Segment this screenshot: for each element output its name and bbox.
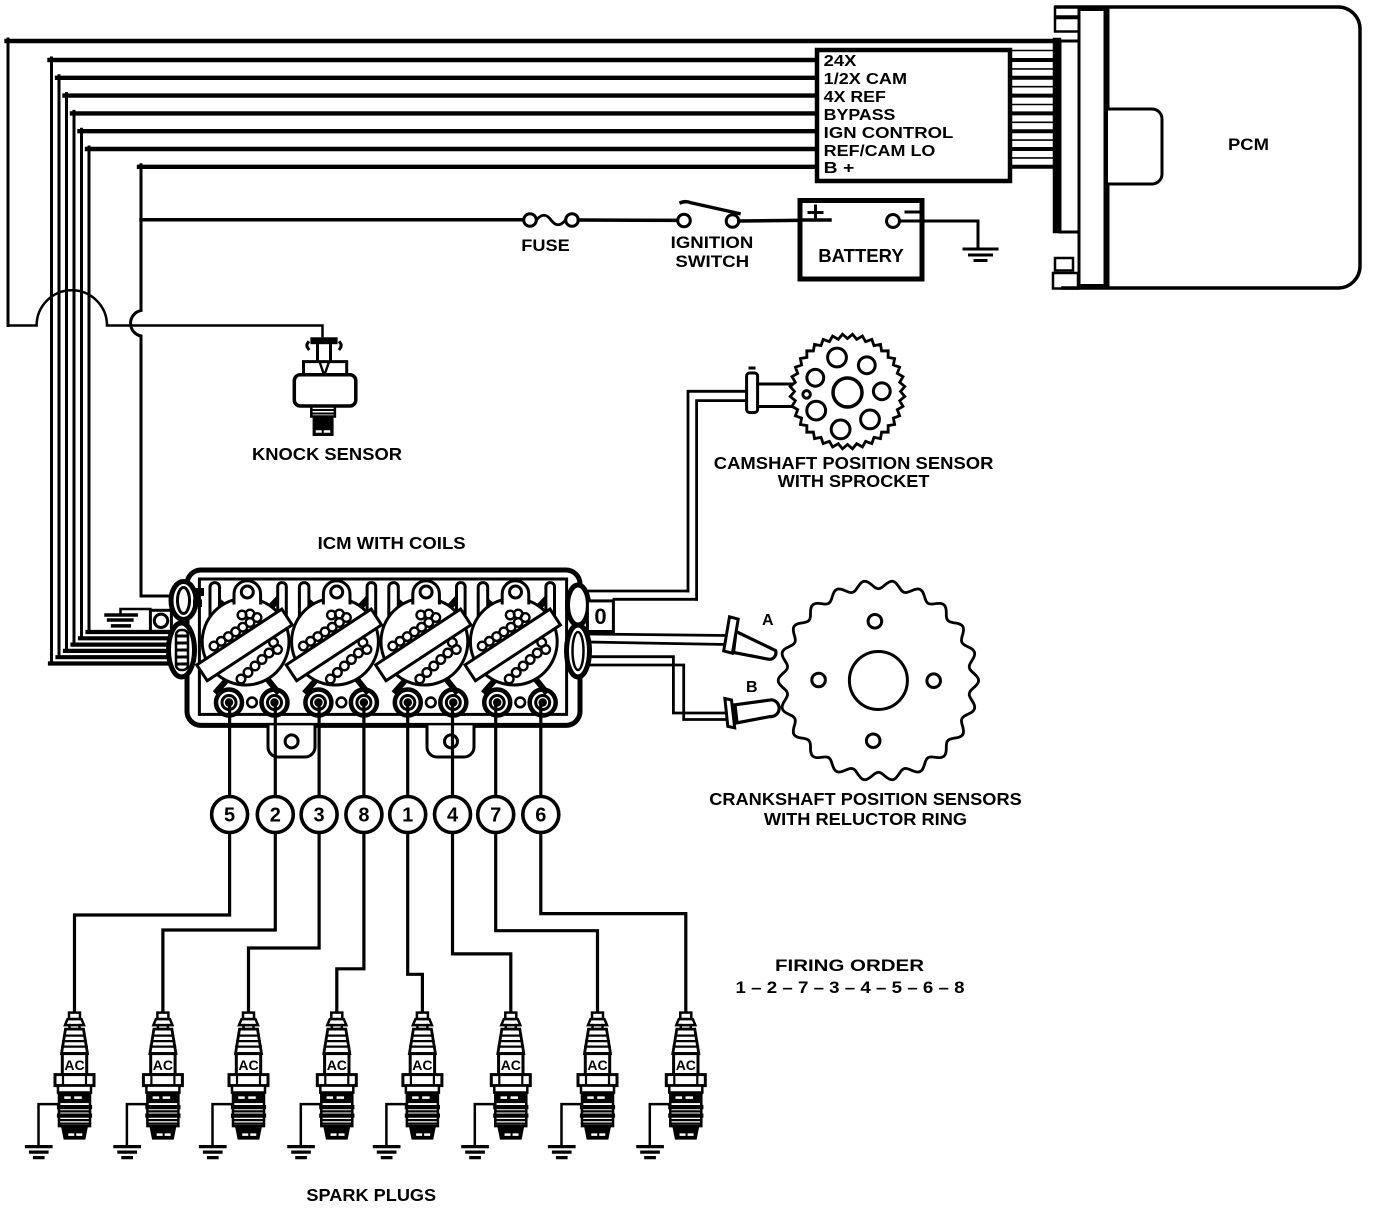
ICM body inner bbox=[199, 579, 566, 714]
cylinder circle 4 bbox=[435, 797, 471, 833]
crank sensor A wires bbox=[589, 634, 728, 636]
wire 4X REF bbox=[65, 93, 818, 97]
svg-text:5: 5 bbox=[224, 805, 235, 827]
svg-text:IGN CONTROL: IGN CONTROL bbox=[824, 125, 954, 142]
crank sensor A body bbox=[734, 632, 776, 660]
coil module 3 bbox=[376, 581, 471, 716]
spark plug 6 bbox=[463, 1013, 531, 1158]
ICM left lower connector bbox=[169, 623, 195, 677]
crank sensor B wires bbox=[589, 657, 726, 713]
wire B+ branch to fuse bbox=[141, 218, 524, 222]
crank sensor A flange bbox=[724, 617, 739, 653]
svg-text:WITH RELUCTOR RING: WITH RELUCTOR RING bbox=[764, 809, 967, 829]
spark plug wire 8 bbox=[541, 706, 686, 1013]
PCM connector tab top 2 bbox=[1055, 18, 1079, 32]
svg-text:CAMSHAFT POSITION SENSOR: CAMSHAFT POSITION SENSOR bbox=[714, 453, 994, 473]
wire 1/2X CAM bbox=[57, 76, 817, 80]
ICM right lower connector bbox=[567, 625, 590, 677]
battery wire to plus bbox=[800, 218, 830, 222]
svg-text:KNOCK SENSOR: KNOCK SENSOR bbox=[252, 444, 402, 464]
cylinder circle 1 bbox=[390, 797, 426, 833]
ICM mounting tab left bbox=[268, 725, 315, 757]
svg-text:BYPASS: BYPASS bbox=[824, 107, 896, 124]
spark plug 7 bbox=[550, 1013, 618, 1158]
wire fuse to ignition switch bbox=[578, 218, 677, 222]
ground (ICM) bbox=[106, 615, 136, 626]
spark plug wire 5 bbox=[408, 706, 423, 1013]
svg-text:4: 4 bbox=[447, 805, 459, 827]
svg-text:BATTERY: BATTERY bbox=[818, 246, 904, 266]
ignition switch bbox=[678, 202, 739, 228]
ICM ground pigtail square bbox=[150, 610, 171, 631]
camshaft sprocket bbox=[790, 334, 905, 449]
wire knock-sensor to PCM (top wire) bbox=[7, 39, 10, 326]
camshaft position sensor wires bbox=[688, 391, 747, 591]
svg-text:IGNITION: IGNITION bbox=[671, 233, 754, 252]
spark plug wire 3 bbox=[249, 706, 320, 1013]
svg-text:SWITCH: SWITCH bbox=[675, 252, 749, 271]
PCM connector tab bottom 1 bbox=[1055, 258, 1073, 271]
svg-text:3: 3 bbox=[314, 805, 325, 827]
PCM left bump bbox=[1108, 109, 1162, 184]
PCM left edge bbox=[1107, 7, 1110, 288]
ICM right 0 box bbox=[587, 601, 613, 632]
PCM connector plate 2 (mating face) bbox=[1079, 10, 1105, 286]
ground (battery) bbox=[964, 249, 997, 261]
camshaft sensor body bbox=[747, 368, 800, 413]
spark plug 5 bbox=[374, 1013, 442, 1158]
svg-text:2: 2 bbox=[270, 805, 281, 827]
cylinder circle 2 bbox=[257, 797, 293, 833]
spark plug wire 7 bbox=[496, 706, 598, 1013]
svg-text:7: 7 bbox=[490, 805, 501, 827]
ICM body outer bbox=[187, 570, 580, 725]
spark plug 1 bbox=[27, 1013, 95, 1158]
spark plug wire 1 (coil tower to plug 1) bbox=[75, 706, 230, 1013]
knock sensor bbox=[294, 337, 356, 436]
coil module 2 bbox=[286, 581, 381, 716]
svg-text:WITH SPROCKET: WITH SPROCKET bbox=[778, 471, 930, 491]
spark plug 8 bbox=[638, 1013, 706, 1158]
box pin labels bbox=[824, 53, 954, 177]
svg-text:1: 1 bbox=[402, 805, 413, 827]
battery minus terminal bbox=[887, 215, 900, 228]
svg-text:B +: B + bbox=[824, 160, 855, 177]
svg-text:4X REF: 4X REF bbox=[824, 89, 886, 106]
svg-text:CRANKSHAFT POSITION SENSORS: CRANKSHAFT POSITION SENSORS bbox=[709, 789, 1022, 809]
svg-text:A: A bbox=[762, 612, 774, 629]
wire 24X bbox=[50, 58, 818, 62]
spark plug wire 4 bbox=[337, 706, 364, 1013]
svg-text:24X: 24X bbox=[824, 53, 857, 70]
cylinder number circles bbox=[212, 797, 559, 833]
cylinder circle 3 bbox=[301, 797, 337, 833]
spark plug 3 bbox=[201, 1013, 269, 1158]
svg-text:1/2X CAM: 1/2X CAM bbox=[824, 71, 907, 88]
PCM connector comb strip bbox=[1054, 39, 1060, 232]
spark plug 4 bbox=[289, 1013, 357, 1158]
PCM connector tab top 1 bbox=[1055, 7, 1079, 17]
battery plus terminal bbox=[809, 206, 822, 219]
svg-text:0: 0 bbox=[594, 604, 606, 629]
cylinder circle 5 bbox=[212, 797, 248, 833]
wire B+ vertical with crossover detour bbox=[139, 165, 817, 169]
wire REF/CAM LO bbox=[87, 147, 817, 151]
svg-text:FUSE: FUSE bbox=[521, 236, 570, 255]
svg-text:SPARK PLUGS: SPARK PLUGS bbox=[306, 1185, 436, 1205]
ICM right upper connector bbox=[568, 585, 589, 625]
coil module 4 bbox=[465, 581, 560, 716]
svg-text:6: 6 bbox=[535, 805, 546, 827]
svg-text:FIRING ORDER: FIRING ORDER bbox=[775, 956, 924, 975]
signal label box bbox=[817, 50, 1010, 181]
cylinder circle 6 bbox=[523, 797, 559, 833]
ICM left connector latch bars bbox=[193, 588, 204, 596]
spark plug 2 bbox=[115, 1013, 183, 1158]
coil module 1 bbox=[197, 581, 292, 716]
fuse bbox=[524, 214, 579, 227]
cylinder circle 7 bbox=[478, 797, 514, 833]
PCM body bbox=[1056, 7, 1360, 288]
battery minus sign bbox=[906, 211, 921, 214]
svg-text:PCM: PCM bbox=[1228, 135, 1269, 154]
battery bbox=[800, 201, 922, 280]
PCM connector plate 1 bbox=[1060, 41, 1079, 232]
spark plug wire 6 bbox=[453, 706, 511, 1013]
svg-text:ICM WITH COILS: ICM WITH COILS bbox=[318, 533, 466, 553]
wire knock sensor horizontal with hump over bundle bbox=[8, 290, 323, 336]
crank sensor B body bbox=[735, 700, 779, 723]
wire BYPASS bbox=[72, 111, 817, 115]
crankshaft reluctor ring bbox=[778, 581, 978, 779]
svg-text:8: 8 bbox=[358, 805, 369, 827]
ICM mounting tab right bbox=[427, 725, 474, 757]
wire ICM to ground bbox=[121, 609, 151, 615]
ICM left upper connector bbox=[171, 582, 196, 620]
label box wires to PCM comb bbox=[1010, 60, 1054, 167]
wire IGN CONTROL bbox=[80, 129, 818, 133]
svg-text:B: B bbox=[746, 679, 758, 696]
PCM connector tab bottom 2 bbox=[1053, 273, 1078, 289]
spark plug wire 2 bbox=[163, 706, 275, 1013]
svg-text:1 – 2 – 7 – 3 – 4 – 5 – 6 – 8: 1 – 2 – 7 – 3 – 4 – 5 – 6 – 8 bbox=[736, 978, 965, 997]
crank sensor B flange bbox=[725, 699, 735, 728]
cylinder circle 8 bbox=[346, 797, 382, 833]
svg-text:REF/CAM LO: REF/CAM LO bbox=[824, 143, 936, 160]
wire switch to battery bbox=[739, 220, 828, 221]
comb pin separator lines bbox=[1010, 51, 1054, 158]
wire battery to ground bbox=[900, 221, 979, 248]
